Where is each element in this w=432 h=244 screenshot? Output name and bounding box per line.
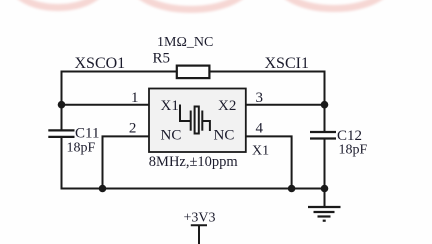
node junction right rail pin3 <box>321 101 329 109</box>
ground bar 4 <box>323 220 326 222</box>
svg-text:XSCO1: XSCO1 <box>75 55 126 72</box>
wire top XSCO1 segment <box>62 71 177 73</box>
wire pin 3 <box>246 104 325 106</box>
capacitor C11 plates <box>48 130 74 137</box>
svg-text:3: 3 <box>255 90 263 106</box>
capacitor C12 plates <box>310 132 336 139</box>
watermark arc middle <box>132 0 250 9</box>
watermark arc right <box>277 0 391 9</box>
crystal symbol quartz plate <box>195 107 199 134</box>
wire pin 4 <box>246 136 292 188</box>
node junction ground <box>321 185 329 193</box>
svg-text:X2: X2 <box>218 98 236 114</box>
wire right rail upper <box>324 71 326 133</box>
crystal symbol left electrode <box>190 111 192 131</box>
svg-text:NC: NC <box>161 128 182 144</box>
wire left rail lower <box>61 137 63 190</box>
crystal symbol right lead <box>202 121 210 131</box>
node junction pin4 bottom <box>288 185 296 193</box>
ground bar 2 <box>314 211 335 213</box>
crystal symbol right electrode <box>201 111 203 131</box>
svg-text:+3V3: +3V3 <box>184 211 216 226</box>
node junction left rail pin1 <box>58 101 66 109</box>
svg-text:XSCI1: XSCI1 <box>265 55 309 72</box>
svg-text:1MΩ_NC: 1MΩ_NC <box>157 35 213 50</box>
wire pin 2 <box>103 136 150 188</box>
wire bottom <box>61 188 326 190</box>
svg-text:X1: X1 <box>161 98 179 114</box>
power +3V3 stem <box>198 225 200 244</box>
svg-text:R5: R5 <box>153 51 171 67</box>
svg-text:4: 4 <box>255 120 263 136</box>
svg-text:18pF: 18pF <box>67 141 96 156</box>
ground bar 3 <box>318 215 331 217</box>
svg-text:NC: NC <box>214 128 235 144</box>
crystal symbol left lead <box>180 105 191 122</box>
svg-text:8MHz,±10ppm: 8MHz,±10ppm <box>149 154 239 170</box>
node junction pin2 bottom <box>99 185 107 193</box>
svg-text:X1: X1 <box>252 144 269 159</box>
svg-text:C11: C11 <box>75 126 99 142</box>
svg-text:2: 2 <box>129 121 137 137</box>
wire right rail lower <box>324 139 326 190</box>
svg-text:1: 1 <box>131 90 139 106</box>
svg-text:18pF: 18pF <box>339 143 368 158</box>
power +3V3 bar <box>191 224 207 226</box>
wire pin 1 <box>62 104 150 106</box>
crystal U1 body box <box>149 89 246 153</box>
ground bar 1 <box>308 206 341 208</box>
ground stem <box>324 189 326 208</box>
resistor R5 body <box>177 66 210 79</box>
watermark arc left <box>12 0 104 8</box>
wire top XSCI1 segment <box>209 71 325 73</box>
wire left rail upper <box>61 71 63 131</box>
